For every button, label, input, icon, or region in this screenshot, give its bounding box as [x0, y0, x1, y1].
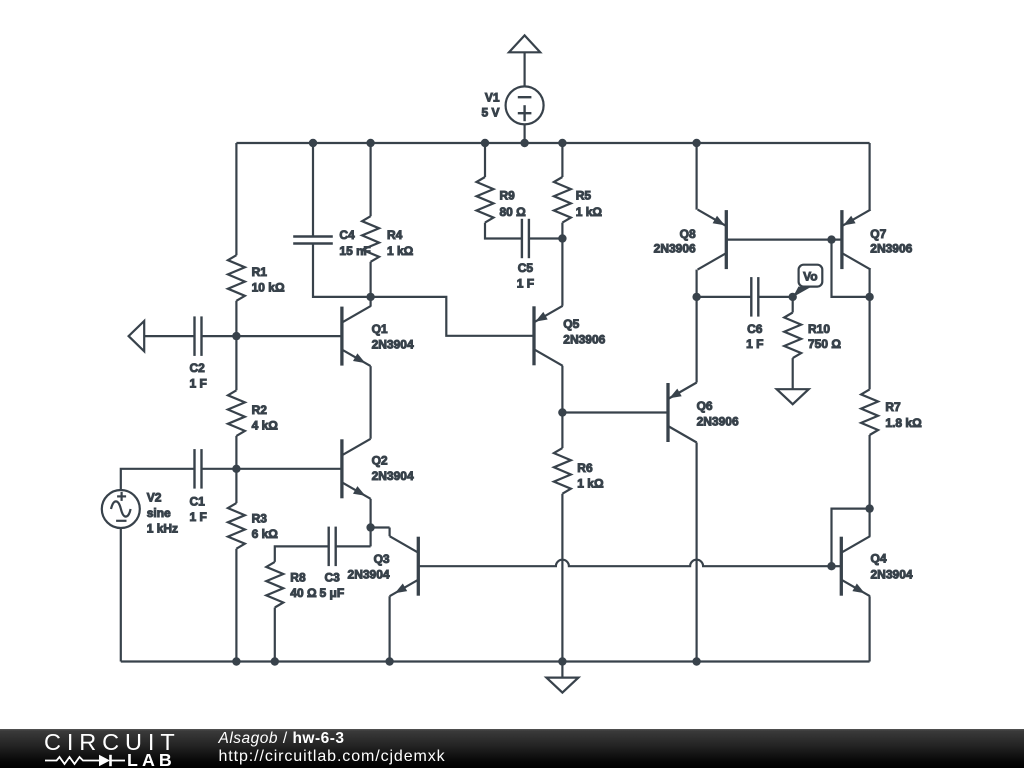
capacitor C3 [329, 527, 336, 567]
input port flag [129, 321, 145, 351]
svg-text:Q6: Q6 [697, 399, 713, 413]
Q2 label [372, 454, 414, 484]
svg-text:Q3: Q3 [374, 552, 390, 566]
svg-text:Q1: Q1 [372, 322, 388, 336]
wire R7 to node [868, 435, 870, 509]
svg-text:R8: R8 [290, 571, 306, 585]
svg-text:Q7: Q7 [870, 227, 886, 241]
ground symbol below R10 [777, 389, 809, 404]
wire Vo to R10 [792, 297, 794, 313]
wire R1 to R2 [235, 301, 237, 391]
svg-text:C4: C4 [339, 228, 355, 242]
wire Q8 collector lead [695, 270, 697, 297]
svg-text:Vo: Vo [803, 269, 817, 283]
svg-text:2N3904: 2N3904 [871, 568, 913, 582]
wire top rail to R9 [484, 143, 486, 177]
wire C1 to Q2 base [202, 468, 342, 470]
wire bottom ground rail [121, 660, 870, 662]
R9 value label [500, 189, 527, 220]
wire R10 to ground [792, 358, 794, 389]
C2 value label [190, 361, 207, 391]
wire top supply rail [236, 142, 869, 144]
Q1 label [372, 322, 414, 352]
wire Q6 emitter lead [695, 297, 697, 383]
svg-text:10 kΩ: 10 kΩ [252, 281, 285, 295]
svg-text:1 kΩ: 1 kΩ [577, 477, 604, 491]
svg-text:1 F: 1 F [190, 510, 207, 524]
wire Q5 collector to R6 node [561, 366, 563, 413]
svg-text:Q4: Q4 [871, 552, 887, 566]
node top rail / R4 [366, 139, 374, 147]
capacitor C2 [195, 316, 202, 356]
wire Q4 base lead [832, 565, 842, 567]
svg-text:2N3904: 2N3904 [372, 338, 414, 352]
wire Q4 collector lead [868, 509, 870, 537]
wire top rail to Q7 emitter [868, 143, 870, 210]
wire Q8 node to C6 [697, 296, 752, 298]
wire Q6 collector to bottom rail [695, 443, 697, 662]
wire C2 to Q1 base [202, 335, 342, 337]
svg-text:1.8 kΩ: 1.8 kΩ [885, 416, 922, 430]
node bottom rail / R8 [271, 657, 279, 665]
wire C3 to R8 [275, 546, 329, 562]
node Q2 emitter [366, 523, 374, 531]
wire Q3 base row with hops [418, 560, 831, 567]
node top rail / R5 [558, 139, 566, 147]
wire R2 to R3 [235, 436, 237, 503]
C5 value label [517, 261, 534, 291]
svg-text:C3: C3 [325, 571, 341, 585]
capacitor C1 [195, 449, 202, 489]
V2 value label [147, 491, 178, 536]
wire top rail to R1 [235, 143, 237, 255]
svg-text:Q5: Q5 [563, 317, 579, 331]
node Q8 collector C6 junction [692, 293, 700, 301]
resistor R6 [554, 448, 571, 494]
svg-text:Q8: Q8 [680, 227, 696, 241]
wire top rail to R4 [370, 143, 372, 216]
svg-text:1 kΩ: 1 kΩ [387, 244, 414, 258]
svg-text:80 Ω: 80 Ω [500, 205, 527, 219]
Q7 label [870, 227, 912, 256]
capacitor C5 [522, 219, 529, 258]
svg-text:R1: R1 [252, 265, 268, 279]
R6 value label [577, 461, 604, 491]
transistor Q2 [342, 439, 371, 499]
svg-text:5 μF: 5 μF [320, 586, 345, 600]
wire V+ flag to V1 [523, 52, 525, 86]
R8 value label [290, 571, 317, 601]
wire Q7 collector lead [868, 270, 870, 297]
V1 value label [481, 91, 499, 120]
transistor Q7 [842, 210, 871, 270]
wire Q7 base to collector tie [832, 240, 870, 297]
svg-text:2N3904: 2N3904 [372, 469, 414, 483]
wire R5 to node [561, 223, 563, 239]
svg-text:R10: R10 [808, 322, 830, 336]
voltage source V1 [506, 86, 544, 124]
node Q4 base [827, 562, 835, 570]
wire R4 to collector node [370, 262, 372, 297]
transistor Q8 [698, 210, 727, 270]
svg-text:4 kΩ: 4 kΩ [252, 419, 279, 433]
wire Q4 emitter to bottom rail [868, 596, 870, 661]
svg-text:1 F: 1 F [746, 337, 763, 351]
R7 value label [885, 400, 922, 430]
Q4 label [871, 552, 913, 582]
Vo flag [793, 265, 823, 298]
capacitor C4 [293, 237, 333, 244]
svg-text:40 Ω: 40 Ω [290, 586, 317, 600]
Q5 label [563, 317, 605, 347]
svg-text:1 kHz: 1 kHz [147, 522, 178, 536]
wire Q7 node to R7 [868, 297, 870, 390]
wire Q1 collector lead [370, 297, 372, 307]
resistor R1 [228, 255, 245, 301]
svg-text:1 kΩ: 1 kΩ [576, 205, 603, 219]
C3 value label [320, 571, 345, 601]
node bottom rail / Q6 [692, 657, 700, 665]
power symbol V+ flag [509, 35, 540, 52]
R4 value label [387, 228, 414, 258]
resistor R8 [266, 562, 283, 608]
wire Q1 emitter to Q2 collector [370, 366, 372, 439]
node bottom rail / Q3 [385, 657, 393, 665]
ground symbol bottom [546, 662, 578, 693]
node R6 top junction [558, 408, 566, 416]
svg-text:R9: R9 [500, 189, 516, 203]
wire Q3 emitter to bottom rail [389, 596, 391, 661]
wire C6 to Vo node [758, 296, 792, 298]
resistor R2 [228, 390, 245, 436]
node C1 junction [232, 465, 240, 473]
R1 value label [252, 265, 285, 295]
wire V1 to top rail [523, 124, 525, 143]
wire R6 node to Q6 base [562, 411, 668, 413]
transistor Q6 [668, 383, 697, 443]
wire C5 to R5 node [529, 237, 563, 239]
svg-text:5 V: 5 V [481, 106, 499, 120]
wire port to C2 [144, 335, 194, 337]
svg-text:V1: V1 [485, 91, 500, 105]
svg-text:R6: R6 [577, 461, 593, 475]
node Q7 collector [865, 293, 873, 301]
Q6 label [697, 399, 739, 429]
wire node to R6 [561, 413, 563, 449]
svg-text:R5: R5 [576, 189, 592, 203]
svg-text:LAB: LAB [127, 750, 176, 768]
svg-text:R3: R3 [252, 512, 268, 526]
voltage source V2 [102, 490, 140, 528]
R10 value label [808, 322, 841, 351]
svg-text:2N3906: 2N3906 [563, 333, 605, 347]
node Vo [789, 293, 797, 301]
svg-text:C2: C2 [190, 361, 206, 375]
wire top rail to C4 [312, 143, 314, 237]
svg-text:1 F: 1 F [517, 277, 534, 291]
wire Q2 emitter to Q3 collector [371, 526, 390, 528]
resistor R5 [554, 177, 571, 223]
wire V2 to bottom rail [120, 528, 122, 662]
wire R3 to bottom rail [235, 549, 237, 662]
wire Q3 collector lead [389, 528, 391, 537]
wire R8 to bottom rail [274, 608, 276, 662]
wire R7 node to Q4 base tie [832, 509, 870, 567]
node Q1 collector [366, 293, 374, 301]
R5 value label [576, 189, 603, 220]
transistor Q5 [534, 306, 563, 366]
node top rail / V1 [520, 139, 528, 147]
wire collector node to Q5 base [371, 297, 534, 336]
wire C3 right plate to Q2 emitter node [336, 545, 371, 547]
wire Q2 emitter node to C3 [370, 528, 372, 547]
svg-text:2N3906: 2N3906 [654, 242, 696, 256]
wire Q2 emitter lead [370, 499, 372, 528]
resistor R3 [228, 503, 245, 549]
svg-text:2N3906: 2N3906 [870, 242, 912, 256]
wire top rail to Q8 emitter [695, 143, 697, 210]
node Q7 base [827, 235, 835, 243]
svg-text:sine: sine [147, 506, 171, 520]
svg-text:Q2: Q2 [372, 454, 388, 468]
node top rail / C4 [309, 139, 317, 147]
svg-text:R4: R4 [387, 228, 403, 242]
node top rail / R9 [481, 139, 489, 147]
wire R6 to bottom rail [561, 494, 563, 662]
Q8 label [654, 227, 696, 256]
svg-text:V2: V2 [147, 491, 162, 505]
resistor R7 [861, 389, 878, 435]
resistor R4 [362, 216, 379, 262]
svg-text:R2: R2 [252, 403, 268, 417]
node bottom rail / R6 [558, 657, 566, 665]
resistor R9 [477, 177, 494, 223]
svg-text:C5: C5 [518, 261, 534, 275]
node base Q1 junction [232, 332, 240, 340]
wire V2 to C1 [121, 469, 195, 490]
wire Q8 base to Q7 base [726, 239, 842, 241]
node R7 bottom [865, 504, 873, 512]
capacitor C6 [751, 277, 758, 317]
Q3 label [348, 552, 390, 582]
svg-text:2N3904: 2N3904 [348, 568, 390, 582]
svg-text:2N3906: 2N3906 [697, 415, 739, 429]
svg-text:C6: C6 [747, 322, 763, 336]
wire R9 to C5 [485, 223, 522, 239]
svg-text:C1: C1 [190, 495, 206, 509]
svg-text:R7: R7 [885, 400, 901, 414]
wire C4 to collector row [313, 244, 371, 297]
R3 value label [252, 512, 279, 542]
svg-text:750 Ω: 750 Ω [808, 337, 841, 351]
C6 value label [746, 322, 763, 351]
C1 value label [190, 495, 207, 525]
C4 value label [339, 228, 370, 258]
resistor R10 [784, 313, 801, 359]
transistor Q3 [390, 536, 419, 596]
transistor Q1 [342, 306, 371, 366]
node bottom rail / R3 [232, 657, 240, 665]
node R5 C5 Q5 junction [558, 234, 566, 242]
svg-text:6 kΩ: 6 kΩ [252, 527, 279, 541]
node top rail / Q8 [692, 139, 700, 147]
svg-text:1 F: 1 F [190, 377, 207, 391]
wire Q5 emitter lead [561, 239, 563, 306]
R2 value label [252, 403, 279, 433]
transistor Q4 [841, 536, 870, 596]
wire top rail to R5 [561, 143, 563, 177]
